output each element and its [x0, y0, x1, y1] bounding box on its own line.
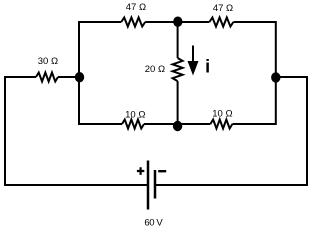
resistor R3 20Ω (center vertical) zigzag: [173, 58, 183, 81]
wire: right connector to bridge node: [276, 76, 308, 78]
wire: bottom rail right segment: [232, 123, 275, 125]
svg-text:30 Ω: 30 Ω: [38, 56, 58, 67]
battery minus sign: [158, 170, 166, 172]
wire: top rail left segment: [79, 21, 121, 23]
svg-text:20 Ω: 20 Ω: [145, 64, 165, 75]
resistor R5 10Ω (bottom-right) zigzag: [210, 120, 232, 129]
svg-text:i: i: [205, 56, 210, 76]
svg-text:10 Ω: 10 Ω: [212, 109, 232, 120]
wire: center branch bottom: [177, 81, 179, 124]
wire: bottom rail middle segment: [144, 123, 210, 125]
svg-text:47 Ω: 47 Ω: [126, 2, 146, 13]
node: left junction: [75, 72, 84, 82]
current arrow i (head): [188, 61, 199, 76]
wire: top rail right segment: [233, 21, 275, 23]
svg-text:47 Ω: 47 Ω: [213, 3, 233, 14]
node: top center junction: [173, 17, 182, 27]
battery plus sign: [137, 167, 144, 175]
svg-text:60 V: 60 V: [144, 217, 163, 228]
resistor R4 10Ω (bottom-left) zigzag: [122, 120, 144, 129]
wire: center branch top: [177, 22, 179, 58]
resistor R2 47Ω (top-right) zigzag: [209, 18, 233, 27]
battery V1 short plate (-): [154, 170, 157, 199]
wire: 30Ω branch left segment: [5, 76, 36, 78]
wire: bottom outer right (from battery -): [155, 184, 308, 186]
node: right junction: [271, 72, 280, 82]
resistor R1 47Ω (top-left) zigzag: [121, 18, 145, 27]
wire: 30Ω branch right segment: [58, 76, 79, 78]
wire: left bridge edge: [78, 21, 80, 125]
current arrow i (shaft): [192, 46, 194, 64]
battery V1 long plate (+): [147, 161, 150, 210]
wire: top rail middle segment: [145, 21, 209, 23]
wire: right bridge edge: [275, 21, 277, 125]
wire: bottom rail left segment: [79, 123, 122, 125]
node: bottom center junction: [173, 121, 182, 131]
wire: left outer vertical: [4, 76, 6, 186]
resistor R6 30Ω zigzag: [36, 73, 58, 82]
wire: bottom outer left (to battery +): [4, 184, 148, 186]
svg-text:10 Ω: 10 Ω: [125, 110, 145, 121]
wire: right outer vertical: [306, 76, 308, 186]
